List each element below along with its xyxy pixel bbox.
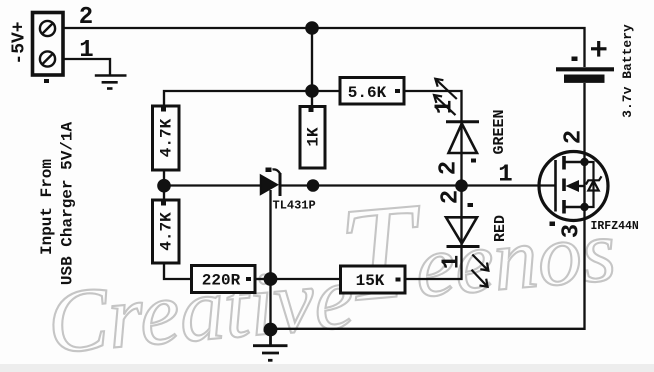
battery tiny mark [572,57,578,62]
svg-text:-5V+: -5V+ [10,21,30,64]
ground GND1 [95,76,127,89]
ground GND2 [253,329,288,360]
resistor R4 5.6K [340,78,404,105]
svg-text:USB Charger 5V/1A: USB Charger 5V/1A [59,121,77,285]
wire main node to mosfet gate [462,184,556,186]
channel segments [562,156,566,214]
svg-text:3: 3 [559,224,586,238]
svg-text:3.7v Battery: 3.7v Battery [620,24,635,118]
resistor R6 15K [341,266,406,293]
svg-text:GREEN: GREEN [491,109,508,154]
internal junction source [580,203,588,211]
svg-text:1: 1 [439,255,466,269]
red LED arrows [472,255,489,287]
junction node ground [264,323,278,337]
wire 4.7K R1 top to top node [164,91,312,106]
internal junction drain [580,158,588,166]
svg-text:2: 2 [436,161,463,175]
svg-text:TL431P: TL431P [273,199,316,213]
wire node to 15K left [270,278,341,280]
wire tl431 anode down to ground node [269,190,271,330]
drain link [564,161,585,163]
junction node 220R 15K [264,272,278,286]
green LED arrows [434,79,457,115]
wire 15K right to red led cathode [405,246,462,279]
resistor R1 4.7K [153,106,180,170]
body arrow [566,180,580,192]
svg-text:2: 2 [79,4,93,31]
resistor R2 4.7K [153,200,180,263]
svg-text:2: 2 [561,130,588,144]
svg-text:1K: 1K [305,127,323,147]
svg-text:2: 2 [438,190,465,204]
wire 220R right to node [255,278,271,280]
wire battery minus to mosfet drain [583,83,585,162]
svg-text:Input From: Input From [38,159,56,255]
wire node A divider mid [163,170,165,200]
wire 4.7K R2 bottom to 220R [164,263,192,279]
MOSFET Q1 IRFZ44N [539,130,639,238]
mosfet tiny mark [550,222,556,227]
junction node top rail [305,21,319,35]
resistor R5 220R [192,266,256,293]
battery BT1 [556,24,635,118]
wire node1 to red led anode [460,186,462,247]
wire tl431 cathode to main node [280,184,462,186]
svg-text:220R: 220R [202,272,241,290]
svg-text:IRFZ44N: IRFZ44N [591,220,639,233]
watermark Creative Teenos [38,159,622,372]
svg-text:4.7K: 4.7K [158,212,176,251]
wire ground node to mosfet source [270,207,585,329]
wire 5.6K right to green led cathode [404,91,462,186]
terminal tiny mark [44,79,49,83]
terminal block J1 [33,13,64,84]
green LED D1 [432,79,509,175]
svg-text:1: 1 [498,162,512,189]
svg-text:1: 1 [432,100,459,114]
red LED D2 [438,190,510,287]
TL431P U1 shunt regulator [261,168,316,213]
gate bar [554,160,557,212]
svg-text:5.6K: 5.6K [348,84,387,102]
bottom gray band [0,364,654,372]
wire terminal pin1 to ground [63,59,110,75]
wire node to 5.6K left [312,90,341,92]
svg-text:15K: 15K [356,272,385,290]
screw terminal pin 1 [40,51,55,66]
body diode branch [585,162,602,207]
svg-text:RED: RED [492,215,509,242]
screw terminal pin 2 [40,21,55,36]
svg-text:4.7K: 4.7K [158,118,176,157]
junction node tl431 cathode [307,179,320,192]
resistor R3 1K [300,107,325,169]
junction node 5.6K tee [305,84,319,98]
junction node divider mid [157,179,171,193]
source link [564,206,585,208]
wire top rail from terminal pin2 to battery [63,28,585,67]
junction node 1 LEDs [455,179,468,192]
svg-text:1: 1 [79,37,93,64]
wire top rail tap down to 1K [311,28,313,107]
wire main node1 horizontal [164,184,261,186]
plus sign [591,41,607,57]
